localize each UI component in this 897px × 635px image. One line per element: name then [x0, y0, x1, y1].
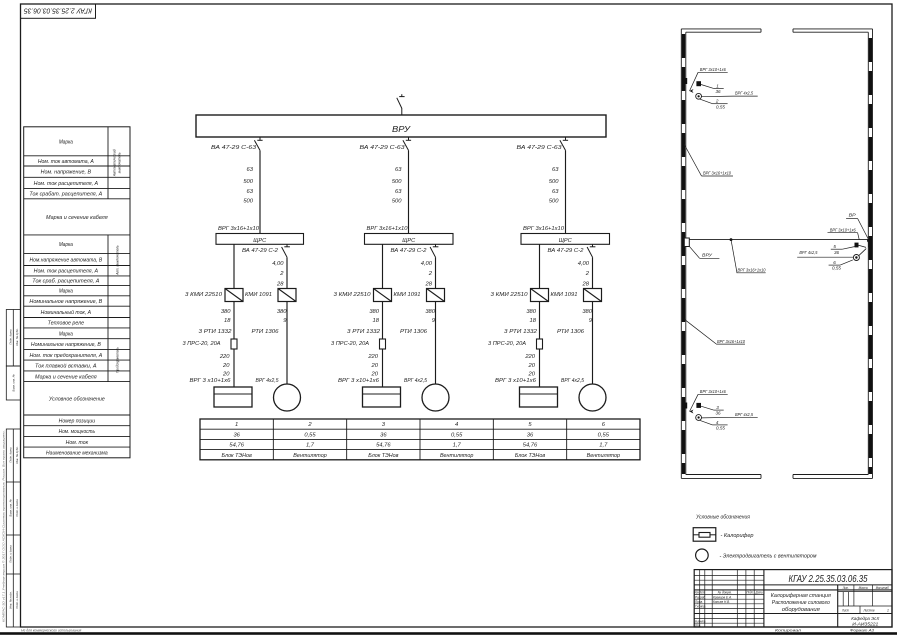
plan pos number 3 [714, 405, 724, 416]
svg-text:Коньев Н.В.: Коньев Н.В. [713, 600, 730, 604]
svg-text:Марка и сечение кабеля: Марка и сечение кабеля [35, 374, 97, 380]
cable label ВРГ 3х16+1х10 [523, 226, 565, 232]
contactor ratings 380/18 [526, 309, 536, 324]
wire contactor to fan [592, 302, 594, 385]
svg-text:Изм.: Изм. [695, 591, 700, 595]
svg-text:Номинальный ток, А: Номинальный ток, А [41, 309, 92, 316]
wire fuse to heater [233, 349, 235, 387]
plan junction box on wall (pos 1/2) [685, 78, 694, 93]
svg-text:Кравцов Е.А.: Кравцов Е.А. [713, 595, 732, 599]
svg-text:КГАУ 2.25.35.03.06.35: КГАУ 2.25.35.03.06.35 [789, 573, 868, 585]
svg-text:ВРГ 3х10+1х6: ВРГ 3х10+1х6 [700, 389, 726, 394]
thermal relay label РТИ 1306 [400, 329, 428, 335]
svg-text:36: 36 [527, 432, 534, 438]
plan heater square pos 3 [696, 403, 713, 410]
svg-text:3: 3 [716, 405, 719, 410]
plan cable label ВРГ 3х10+1х6 (pos 1) [690, 67, 728, 91]
contactor KM2 КМИ 1091 [245, 289, 296, 302]
svg-text:Марка: Марка [59, 289, 73, 295]
incoming supply wire [401, 108, 403, 115]
plan pos number 2 [700, 99, 728, 110]
svg-text:20: 20 [528, 363, 536, 369]
svg-text:Масса: Масса [859, 586, 868, 590]
svg-text:ЩРС: ЩРС [402, 238, 415, 244]
plan right cluster: ВР label [846, 213, 869, 241]
svg-text:380: 380 [425, 309, 435, 315]
cable label ВРГ 4х2,5 [256, 378, 280, 384]
svg-text:оборудования: оборудования [782, 607, 820, 613]
svg-text:ВРГ 3х16+1х10: ВРГ 3х16+1х10 [703, 171, 731, 176]
breaker ratings 63/500/63/500 [392, 167, 402, 204]
svg-text:36: 36 [715, 89, 721, 94]
svg-text:54,76: 54,76 [229, 443, 244, 449]
svg-text:Лист: Лист [841, 608, 849, 612]
svg-text:Блок ТЭНов: Блок ТЭНов [368, 453, 398, 459]
svg-text:Тепловое реле: Тепловое реле [48, 321, 84, 327]
distribution board ShchRS [216, 234, 304, 245]
svg-text:ВА 47-29 С-63: ВА 47-29 С-63 [211, 145, 257, 151]
svg-text:ВРГ 3х16+1х10: ВРГ 3х16+1х10 [738, 268, 766, 273]
svg-text:Кафедра ЭсХ: Кафедра ЭсХ [851, 616, 880, 622]
heater block Блок ТЭНов [214, 387, 252, 407]
svg-text:Вентилятор: Вентилятор [293, 453, 326, 459]
svg-text:ВА 47-29 С-63: ВА 47-29 С-63 [517, 145, 563, 151]
plan cable label ВРГ 3х16+1х10 (middle) [731, 240, 766, 273]
svg-text:Ном. мощность: Ном. мощность [59, 429, 96, 435]
thermal relay label 3 РТИ 1332 [199, 329, 232, 335]
svg-text:ВРГ 4х2,5: ВРГ 4х2,5 [799, 250, 817, 255]
contactor KM1 3 КМИ 22510 [334, 289, 392, 302]
svg-text:500: 500 [243, 199, 253, 205]
svg-text:Калориферная станция: Калориферная станция [771, 593, 831, 599]
svg-text:500: 500 [549, 199, 559, 205]
svg-text:4,00: 4,00 [272, 261, 284, 267]
svg-text:КМИ 1091: КМИ 1091 [551, 292, 578, 298]
title block small labels [695, 586, 890, 627]
svg-text:0,55: 0,55 [716, 426, 725, 431]
svg-text:ЩРС: ЩРС [253, 238, 266, 244]
heater block Блок ТЭНов [520, 387, 558, 407]
svg-text:20: 20 [222, 372, 230, 378]
svg-text:Номинальное напряжение, В: Номинальное напряжение, В [31, 342, 101, 348]
svg-text:18: 18 [224, 318, 231, 324]
plan VRU label [689, 246, 719, 258]
fuse ratings 220/20/20 [219, 354, 230, 378]
left table vertical texts [113, 149, 122, 373]
svg-text:РТИ 1306: РТИ 1306 [252, 329, 280, 335]
svg-text:4: 4 [455, 422, 458, 428]
thermal relay label РТИ 1306 [252, 329, 280, 335]
svg-text:КГАУ 2.25.35.03.06.35: КГАУ 2.25.35.03.06.35 [23, 6, 92, 15]
contactor ratings 380/9 [425, 309, 435, 324]
breaker ratings 63/500/63/500 [243, 167, 253, 204]
svg-text:20: 20 [528, 372, 536, 378]
svg-text:Подп.: Подп. [747, 591, 754, 595]
fuse FU 3 ПРС-20, 20А [183, 339, 238, 349]
svg-text:ВА 47-29 С-2: ВА 47-29 С-2 [242, 248, 278, 254]
contactor KM2 КМИ 1091 [394, 289, 445, 302]
svg-text:3 ПРС-20, 20А: 3 ПРС-20, 20А [331, 341, 369, 347]
left margin stamp: lower group [6, 429, 20, 627]
legend heater text [721, 533, 754, 539]
svg-text:3 КМИ 22510: 3 КМИ 22510 [185, 292, 223, 298]
wire busbar to ShchRS [565, 150, 567, 233]
svg-text:Условные обозначения: Условные обозначения [695, 515, 750, 521]
svg-text:20: 20 [371, 363, 379, 369]
svg-text:Лит.: Лит. [842, 586, 849, 590]
svg-text:4: 4 [716, 420, 719, 425]
svg-text:0,55: 0,55 [451, 432, 463, 438]
title block project name [771, 593, 831, 613]
svg-text:3 РТИ 1332: 3 РТИ 1332 [347, 329, 380, 335]
svg-text:КМИ 1091: КМИ 1091 [394, 292, 421, 298]
svg-text:63: 63 [552, 189, 559, 195]
svg-text:ВРГ 4х2,5: ВРГ 4х2,5 [404, 378, 428, 384]
plan fan circle pos 4 [696, 415, 702, 421]
left wire contactor to fuse [382, 302, 384, 340]
wire contactor to fan [435, 302, 437, 385]
heater block Блок ТЭНов [363, 387, 401, 407]
svg-text:4,00: 4,00 [421, 261, 433, 267]
svg-text:500: 500 [243, 179, 253, 185]
svg-text:ВА 47-29 С-63: ВА 47-29 С-63 [360, 145, 406, 151]
svg-text:63: 63 [395, 167, 402, 173]
svg-text:Формат А3: Формат А3 [850, 629, 875, 633]
svg-text:КОМПАС-3D v17.1 Учебная версия: КОМПАС-3D v17.1 Учебная версия © 2017 ОО… [2, 430, 6, 622]
plan pos number 4 [700, 420, 728, 431]
svg-text:ВРГ 4х2,5: ВРГ 4х2,5 [735, 412, 753, 417]
svg-text:Блок ТЭНов: Блок ТЭНов [222, 453, 252, 459]
svg-text:Ток плавкой вставки, А: Ток плавкой вставки, А [35, 363, 97, 370]
svg-text:Расположение силового: Расположение силового [772, 600, 830, 606]
right wire ShchRS to fan contactor [435, 257, 437, 288]
legend fan symbol [696, 549, 709, 562]
svg-text:Подп. и дата: Подп. и дата [15, 499, 19, 517]
breaker ratings 4,00/2/28 [578, 261, 590, 287]
svg-text:ВРГ 3х16+1х10: ВРГ 3х16+1х10 [218, 226, 260, 232]
cable label ВРГ 4х2,5 [561, 378, 585, 384]
legend heading [695, 515, 750, 521]
svg-text:3 РТИ 1332: 3 РТИ 1332 [504, 329, 537, 335]
svg-text:Блок ТЭНов: Блок ТЭНов [515, 453, 545, 459]
svg-text:63: 63 [247, 189, 254, 195]
svg-text:0,55: 0,55 [832, 266, 841, 271]
left margin stamp: second box [6, 366, 20, 400]
svg-text:ВР: ВР [849, 213, 857, 218]
plan right cluster cable ВРГ 3х10+1х6 (pos 5) [828, 227, 860, 239]
fuse FU 3 ПРС-20, 20А [488, 339, 543, 349]
svg-text:ВРГ 3 х10+1х6: ВРГ 3 х10+1х6 [495, 378, 537, 384]
svg-text:Предохранитель: Предохранитель [116, 347, 120, 373]
svg-text:18: 18 [530, 318, 537, 324]
legend fan text [720, 554, 817, 560]
contactor ratings 380/18 [221, 309, 231, 324]
plan pos number 1 [714, 83, 724, 94]
svg-text:380: 380 [369, 309, 379, 315]
left parameter table row labels [29, 139, 107, 456]
svg-text:20: 20 [371, 372, 379, 378]
svg-text:ВРГ 3х16+1х10: ВРГ 3х16+1х10 [523, 226, 565, 232]
left wire contactor to fuse [233, 302, 235, 340]
svg-text:№ докум.: № докум. [718, 591, 732, 595]
svg-text:6: 6 [833, 260, 836, 265]
plan cable label ВРГ 4х2,5 (pos 6) [797, 250, 853, 257]
svg-text:- Электродвигатель с вентилято: - Электродвигатель с вентилятором [720, 554, 817, 560]
svg-text:220: 220 [367, 354, 378, 360]
svg-text:Утв.: Утв. [695, 623, 701, 627]
svg-text:Разраб.: Разраб. [695, 595, 706, 599]
plan cable label ВРГ 4х2,5 (pos 4) [702, 412, 758, 418]
watermark bottom: not for commercial use [21, 628, 82, 632]
svg-text:Номинальное напряжение, В: Номинальное напряжение, В [29, 299, 102, 305]
breaker ratings 63/500/63/500 [549, 167, 559, 204]
wire busbar to ShchRS [259, 150, 261, 233]
svg-text:ВРГ 3х10+1х6: ВРГ 3х10+1х6 [700, 67, 726, 72]
plan cable label ВРГ 3х10+1х6 (pos 3) [690, 389, 728, 411]
equipment table grid [200, 419, 640, 460]
svg-text:Ток срабат. расцепителя, А: Ток срабат. расцепителя, А [29, 192, 102, 198]
incoming supply disconnect switch [397, 94, 405, 108]
svg-text:Ток сраб. расцепителя, А: Ток сраб. расцепителя, А [32, 279, 100, 285]
svg-text:54,76: 54,76 [376, 443, 391, 449]
svg-text:ВА 47-29 С-2: ВА 47-29 С-2 [391, 248, 427, 254]
svg-text:ВРГ 3 х10+1х6: ВРГ 3 х10+1х6 [338, 378, 380, 384]
left wire ShchRS to heater contactor [233, 244, 235, 288]
svg-text:220: 220 [219, 354, 230, 360]
cable label ВРГ 3х16+1х10 [367, 226, 409, 232]
fuse ratings 220/20/20 [524, 354, 535, 378]
plan pos number 6 [829, 260, 853, 271]
svg-text:28: 28 [425, 281, 433, 287]
wire fuse to heater [539, 349, 541, 387]
svg-text:ВРГ 3х16+1х10: ВРГ 3х16+1х10 [717, 339, 745, 344]
plan riser cable label lower ВРГ 3х16+1х10 [684, 319, 745, 344]
svg-text:Подп. и дата: Подп. и дата [9, 545, 13, 563]
svg-text:28: 28 [582, 281, 590, 287]
svg-text:Дата: Дата [755, 591, 763, 595]
svg-text:1: 1 [716, 83, 719, 88]
svg-text:РТИ 1306: РТИ 1306 [557, 329, 585, 335]
svg-text:ВРГ 4х2,5: ВРГ 4х2,5 [561, 378, 585, 384]
circuit breaker QF ВА 47-29 С-63 (branch x=260.0) [211, 137, 263, 151]
plan riser cable label upper ВРГ 3х16+1х10 [684, 144, 733, 176]
fuse FU 3 ПРС-20, 20А [331, 339, 386, 349]
title block department [851, 616, 880, 628]
title block grid [694, 570, 892, 627]
equipment table contents [222, 422, 621, 459]
svg-text:3 РТИ 1332: 3 РТИ 1332 [199, 329, 232, 335]
fuse ratings 220/20/20 [367, 354, 378, 378]
watermark left edge: KOMPAS-3D [2, 430, 6, 622]
svg-text:Подп. и дата: Подп. и дата [15, 591, 19, 609]
svg-text:ВРГ 4х2,5: ВРГ 4х2,5 [735, 91, 753, 96]
cable label ВРГ 3 х10+1х6 [495, 378, 537, 384]
svg-text:И-АИ35221: И-АИ35221 [852, 622, 878, 628]
thermal relay label РТИ 1306 [557, 329, 585, 335]
svg-text:Подп. дата: Подп. дата [9, 329, 13, 345]
wire busbar to ShchRS [408, 150, 410, 233]
svg-text:Копировал: Копировал [775, 629, 802, 633]
svg-text:ВРУ: ВРУ [702, 253, 713, 258]
svg-text:63: 63 [395, 189, 402, 195]
svg-text:1,7: 1,7 [599, 443, 608, 449]
bottom sheet shadow edge [0, 632, 897, 635]
svg-text:ВРГ 3 х10+1х6: ВРГ 3 х10+1х6 [190, 378, 232, 384]
svg-text:3 ПРС-20, 20А: 3 ПРС-20, 20А [488, 341, 526, 347]
left wire ShchRS to heater contactor [539, 244, 541, 288]
circuit breaker ВА 47-29 С-2 [548, 244, 596, 257]
svg-text:Ном. ток расцепителя, А: Ном. ток расцепителя, А [34, 269, 99, 275]
contactor KM1 3 КМИ 22510 [491, 289, 549, 302]
svg-text:0,55: 0,55 [598, 432, 610, 438]
svg-text:Марка: Марка [59, 139, 73, 145]
svg-text:Марка: Марка [59, 242, 73, 248]
svg-text:Листов: Листов [863, 608, 875, 612]
svg-text:Авт. Выключатель: Авт. Выключатель [116, 245, 120, 276]
contactor ratings 380/9 [277, 309, 287, 324]
svg-text:36: 36 [380, 432, 387, 438]
svg-text:Номер позиции: Номер позиции [59, 418, 95, 424]
svg-text:Инв. № дубл.: Инв. № дубл. [15, 446, 19, 463]
svg-text:Автоматический: Автоматический [113, 149, 117, 177]
svg-text:Т.контр.: Т.контр. [695, 605, 706, 609]
contactor KM2 КМИ 1091 [551, 289, 602, 302]
svg-text:20: 20 [222, 363, 230, 369]
contactor KM1 3 КМИ 22510 [185, 289, 243, 302]
left wall piers (thick segments) [682, 34, 685, 474]
svg-text:63: 63 [247, 167, 254, 173]
svg-text:Марка: Марка [59, 331, 73, 337]
svg-text:Масштаб: Масштаб [876, 586, 889, 590]
wire fuse to heater [382, 349, 384, 387]
svg-text:500: 500 [549, 179, 559, 185]
svg-text:500: 500 [392, 179, 402, 185]
svg-text:220: 220 [524, 354, 535, 360]
circuit breaker ВА 47-29 С-2 [391, 244, 439, 257]
svg-text:4,00: 4,00 [578, 261, 590, 267]
cable label ВРГ 3 х10+1х6 [338, 378, 380, 384]
svg-text:Ном. ток: Ном. ток [66, 440, 89, 446]
svg-text:0,55: 0,55 [716, 104, 725, 109]
cable label ВРГ 3х16+1х10 [218, 226, 260, 232]
svg-text:2: 2 [715, 99, 719, 104]
svg-text:380: 380 [582, 309, 592, 315]
svg-text:Условное обозначение: Условное обозначение [49, 396, 105, 402]
circuit breaker QF ВА 47-29 С-63 (branch x=408.5) [360, 137, 412, 151]
svg-text:1,7: 1,7 [453, 443, 462, 449]
breaker ratings 4,00/2/28 [421, 261, 433, 287]
svg-text:- Калорифер: - Калорифер [721, 533, 754, 539]
left margin stamp: upper group [6, 310, 20, 367]
document number box (rotated 180) [21, 4, 96, 18]
svg-text:ВА 47-29 С-2: ВА 47-29 С-2 [548, 248, 584, 254]
right wire ShchRS to fan contactor [286, 257, 288, 288]
svg-text:3 КМИ 22510: 3 КМИ 22510 [334, 292, 372, 298]
breaker ratings 4,00/2/28 [272, 261, 284, 287]
svg-text:3 КМИ 22510: 3 КМИ 22510 [491, 292, 529, 298]
circuit breaker ВА 47-29 С-2 [242, 244, 290, 257]
wire contactor to fan [286, 302, 288, 385]
thermal relay label 3 РТИ 1332 [504, 329, 537, 335]
contactor ratings 380/18 [369, 309, 379, 324]
svg-text:54,76: 54,76 [523, 443, 538, 449]
svg-text:36: 36 [715, 411, 721, 416]
plan fan circle pos 2 [696, 93, 702, 99]
svg-text:18: 18 [373, 318, 380, 324]
left wire contactor to fuse [539, 302, 541, 340]
circuit breaker QF ВА 47-29 С-63 (branch x=565.5) [517, 137, 569, 151]
fan motor Вентилятор [422, 384, 449, 411]
svg-text:Ном. ток автомата, А: Ном. ток автомата, А [38, 159, 94, 165]
svg-text:Ном. ток предохранителя, А: Ном. ток предохранителя, А [29, 353, 102, 359]
svg-text:ВРГ 4х2,5: ВРГ 4х2,5 [256, 378, 280, 384]
left parameter table grid [24, 127, 130, 458]
plan junction box on wall (pos 3/4) [685, 403, 694, 414]
svg-text:Лист: Лист [699, 591, 704, 595]
right wall piers (thick segments) [869, 38, 872, 474]
svg-text:500: 500 [392, 199, 402, 205]
svg-text:Марка и сечение кабеля: Марка и сечение кабеля [46, 215, 108, 221]
svg-text:Взам. инв. №: Взам. инв. № [12, 374, 16, 391]
room plan walls [681, 29, 872, 479]
busbar panel VRU [196, 115, 606, 137]
svg-text:Ном. напряжение, В: Ном. напряжение, В [41, 170, 92, 176]
thermal relay label 3 РТИ 1332 [347, 329, 380, 335]
svg-text:Инв. № подл.: Инв. № подл. [9, 591, 13, 609]
svg-text:РТИ 1306: РТИ 1306 [400, 329, 428, 335]
svg-text:3 ПРС-20, 20А: 3 ПРС-20, 20А [183, 341, 221, 347]
fan motor Вентилятор [274, 384, 301, 411]
svg-text:5: 5 [833, 244, 836, 249]
cable label ВРГ 4х2,5 [404, 378, 428, 384]
plan right wall junction [867, 239, 870, 247]
svg-text:ВРУ: ВРУ [392, 125, 411, 134]
svg-text:Пров.: Пров. [695, 600, 703, 604]
plan heater square pos 1 [696, 81, 713, 88]
cable label ВРГ 3 х10+1х6 [190, 378, 232, 384]
svg-text:36: 36 [834, 250, 840, 255]
svg-text:63: 63 [552, 167, 559, 173]
svg-text:ВРГ 3х10+1х6: ВРГ 3х10+1х6 [830, 227, 856, 232]
legend heater symbol [693, 528, 716, 542]
plan cable label ВРГ 4х2,5 (pos 2) [702, 91, 758, 97]
svg-text:Ном.напряжение автомата, В: Ном.напряжение автомата, В [29, 257, 102, 263]
distribution board ShchRS [365, 234, 454, 245]
plan heater square pos 5 [855, 243, 867, 248]
plan VRU cabinet on wall [684, 238, 689, 247]
svg-text:ЩРС: ЩРС [559, 238, 572, 244]
svg-text:КМИ 1091: КМИ 1091 [245, 292, 272, 298]
svg-text:Вентилятор: Вентилятор [440, 453, 473, 459]
svg-text:36: 36 [233, 432, 240, 438]
plan fan circle pos 6 [853, 249, 866, 261]
svg-text:1: 1 [887, 608, 889, 612]
left wire ShchRS to heater contactor [382, 244, 384, 288]
below frame: kopiroval / format [775, 629, 875, 633]
distribution board ShchRS [521, 234, 610, 245]
svg-text:Наименование механизма: Наименование механизма [46, 450, 108, 456]
plan pos number 5 [831, 244, 855, 255]
svg-text:380: 380 [526, 309, 536, 315]
svg-text:выключатель: выключатель [118, 152, 122, 173]
title block doc number [789, 573, 868, 585]
fan motor Вентилятор [579, 384, 606, 411]
svg-text:380: 380 [277, 309, 287, 315]
svg-text:380: 380 [221, 309, 231, 315]
svg-text:Ном. ток расцепителя, А: Ном. ток расцепителя, А [34, 181, 99, 187]
svg-text:1,7: 1,7 [306, 443, 315, 449]
contactor ratings 380/9 [582, 309, 592, 324]
